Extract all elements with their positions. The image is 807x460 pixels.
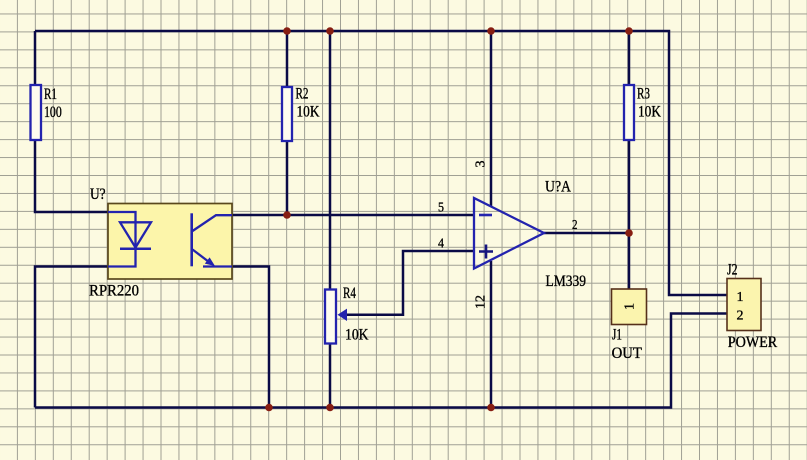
svg-text:2: 2: [737, 309, 744, 324]
wire: R2 top stub: [286, 31, 289, 87]
wire: optocoupler cathode to bottom bus: [35, 267, 108, 408]
junction dot bottom bus / pin12: [487, 404, 495, 412]
junction dot top bus / R2: [283, 27, 291, 35]
wire: R3 top stub: [628, 31, 631, 85]
potentiometer R4 wiper arrowhead: [338, 309, 348, 321]
svg-text:4: 4: [438, 236, 444, 251]
wire: pin12 to bottom bus: [490, 261, 493, 408]
wire: pin3 from top bus: [490, 31, 493, 206]
wire: emitter to bottom bus: [232, 267, 269, 408]
wire: vertical column x=330 lower (R4 to bus): [329, 344, 332, 408]
resistor R3: [624, 85, 634, 140]
svg-text:RPR220: RPR220: [89, 283, 139, 300]
svg-text:J1: J1: [612, 327, 622, 344]
junction dot bottom bus / R4 column: [326, 404, 334, 412]
optocoupler U? body: [108, 204, 232, 280]
svg-text:POWER: POWER: [728, 334, 778, 351]
svg-text:12: 12: [474, 295, 489, 309]
op-amp minus sign: [479, 214, 492, 217]
svg-text:R4: R4: [343, 285, 356, 302]
svg-text:2: 2: [572, 218, 578, 233]
optocoupler transistor base bar: [190, 213, 193, 266]
wire: top power bus from R1 top to J2 pin1: [35, 31, 727, 295]
optocoupler LED cathode bar: [120, 247, 151, 250]
svg-text:10K: 10K: [638, 104, 662, 121]
wire: R1 bottom to optocoupler anode: [35, 140, 108, 212]
junction dot top bus / R3: [625, 27, 633, 35]
svg-text:OUT: OUT: [612, 345, 643, 362]
op-amp plus sign: [479, 245, 493, 259]
svg-text:U?A: U?A: [545, 179, 572, 196]
svg-text:3: 3: [474, 161, 489, 168]
optocoupler transistor emitter pin line: [203, 265, 232, 267]
svg-text:R2: R2: [296, 86, 309, 103]
op-amp U?A triangle: [474, 198, 544, 269]
resistor R1: [31, 85, 42, 140]
optocoupler LED lead (anode wire through diode axis to cathode exit): [108, 212, 136, 267]
junction dot top bus / pin3: [487, 27, 495, 35]
resistor R2: [282, 87, 292, 141]
svg-text:R1: R1: [44, 86, 57, 103]
wire: R1 top stub: [34, 31, 37, 85]
wire: comparator output pin2: [544, 232, 629, 235]
svg-text:10K: 10K: [345, 327, 369, 344]
svg-text:5: 5: [438, 200, 444, 215]
svg-text:100: 100: [44, 104, 62, 121]
wire: R3 bottom through output junction to J1: [628, 140, 631, 289]
junction dot top bus / x330 column: [326, 27, 334, 35]
junction dot output / R3-J1: [625, 229, 633, 237]
svg-text:J2: J2: [727, 262, 738, 279]
svg-text:U?: U?: [90, 186, 106, 203]
svg-text:1: 1: [737, 290, 744, 305]
wire: vertical column x=330 upper (bus to R4): [329, 31, 332, 290]
svg-text:LM339: LM339: [546, 273, 587, 290]
connector J1: [612, 289, 647, 325]
junction dot bottom bus / emitter: [265, 404, 273, 412]
optocoupler LED triangle: [120, 222, 151, 247]
svg-text:1: 1: [623, 303, 638, 310]
junction dot pin5 net / R2: [283, 211, 291, 219]
wire: R4 wiper to pin4 net: [346, 251, 474, 315]
svg-text:R3: R3: [637, 86, 650, 103]
potentiometer R4: [325, 290, 336, 344]
optocoupler transistor collector: [193, 215, 233, 231]
wire: R2 bottom to pin5 net: [286, 141, 289, 215]
wire: bottom ground bus to J2 pin2: [35, 314, 727, 408]
connector J2: [727, 279, 761, 331]
optocoupler transistor emitter diagonal: [193, 250, 212, 264]
svg-text:10K: 10K: [297, 104, 321, 121]
wire: pin5 net from optocoupler collector to comparator: [232, 214, 474, 217]
optocoupler emitter arrowhead: [205, 257, 215, 266]
